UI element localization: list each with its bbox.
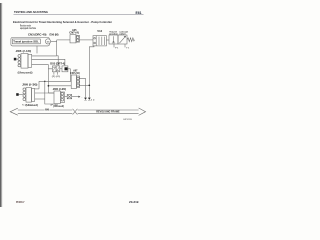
ground foot right	[88, 98, 91, 100]
valve left symbol	[113, 36, 115, 41]
J06 (/-10) pins	[18, 55, 21, 58]
svg-text:(P 35): (P 35)	[51, 104, 59, 106]
wire circle to tee	[51, 40, 57, 42]
wire via x44.8 to J08 bottom	[45, 81, 54, 104]
valve right symbol diagonal	[119, 36, 125, 43]
diode box D03 cell C	[62, 66, 68, 72]
svg-text:valve: valve	[119, 34, 127, 36]
header rule	[14, 14, 144, 16]
svg-text:J08 (/-20): J08 (/-20)	[53, 87, 67, 91]
connector J06 (/-10) body	[21, 54, 28, 69]
book spine shadow left edge	[0, 3, 3, 207]
wire X box right	[72, 96, 79, 98]
bus down from D03 left	[47, 69, 49, 93]
J06 (/-30) black square terminal	[16, 93, 19, 96]
revolving frame arrow body	[10, 108, 145, 115]
svg-text:BJP01159: BJP01159	[123, 119, 132, 121]
valve left cell	[109, 35, 118, 44]
svg-text:CN3 (DRC-40): CN3 (DRC-40)	[28, 32, 47, 36]
branch to A07 left	[48, 85, 71, 87]
valve right cell	[118, 35, 127, 44]
wire A07 pin3 to bus	[80, 84, 90, 86]
D03 bottom stubs	[53, 72, 55, 75]
travel junction SOL inner label box	[12, 39, 40, 44]
junction dot at bus/A07	[48, 85, 50, 87]
connector J08 (/-20) body	[54, 91, 60, 104]
wire V12 down to frame	[89, 46, 94, 98]
svg-text:J06 (/-30): J06 (/-30)	[22, 83, 38, 87]
small texts	[13, 25, 130, 109]
junction dot cross wire	[44, 81, 45, 82]
svg-text:V12: V12	[97, 29, 102, 33]
svg-text:E06 (M): E06 (M)	[50, 32, 59, 36]
J06 wire 1	[32, 55, 57, 57]
connector A25 body	[70, 35, 76, 43]
wire tee down	[56, 40, 58, 56]
connector J06 (/-30) body	[26, 88, 32, 103]
J06 wire 3	[32, 65, 53, 69]
valve spring	[127, 38, 135, 42]
wire end arrow after X box	[78, 96, 80, 98]
junction dot on long vertical	[88, 84, 90, 86]
J06 (/-10) left stub	[16, 58, 18, 60]
wire A25 to V12	[80, 39, 94, 41]
wire jog into D03 top	[57, 56, 59, 66]
wire A07 pin1 to frame	[80, 78, 86, 97]
wire J06-30 mid to J08	[35, 92, 54, 94]
svg-text:REVOLVING FRAME: REVOLVING FRAME	[96, 110, 120, 114]
svg-text:Electrical Circuit for Travel: Electrical Circuit for Travel Interlocki…	[13, 20, 113, 24]
break symbol on arrow	[72, 110, 77, 114]
long cross wire	[39, 80, 71, 82]
wire SOL box bottom to J06 top	[36, 46, 38, 54]
svg-text:junction: junction	[108, 33, 118, 36]
travel junction SOL box outer	[11, 38, 50, 46]
svg-text:(1) (2): (1) (2)	[52, 76, 60, 78]
svg-text:CN7-(4): CN7-(4)	[69, 32, 79, 35]
svg-text:20-319: 20-319	[129, 200, 139, 204]
wire B to C	[60, 68, 62, 70]
svg-text:To sw. joint: To sw. joint	[22, 103, 33, 106]
diode box D03 cell A	[52, 66, 56, 72]
connector circle CN3	[45, 39, 50, 44]
ground foot left	[84, 98, 87, 100]
X box	[67, 95, 72, 99]
branch into J08	[48, 92, 54, 94]
svg-text:J06 (/-10): J06 (/-10)	[16, 49, 32, 53]
svg-text:D03 (DRT-4): D03 (DRT-4)	[50, 61, 65, 65]
wire V12 to valve	[106, 39, 109, 41]
relay V12 body	[93, 36, 106, 46]
J06 (/-10) black square terminal	[14, 58, 16, 61]
svg-text:PC200-7: PC200-7	[16, 200, 25, 204]
connector A07 body	[71, 75, 76, 89]
right arrowhead	[139, 108, 146, 115]
diode box D03 cell B	[56, 66, 60, 72]
valve port stubs	[113, 44, 115, 47]
J06 wire 2	[32, 59, 65, 66]
wire tee right to A25	[57, 39, 70, 41]
svg-text:equipped machine: equipped machine	[20, 27, 37, 30]
wire J08 to X box	[65, 96, 68, 98]
page background	[0, 0, 150, 212]
svg-text:CN7-(10): CN7-(10)	[70, 72, 79, 75]
svg-text:(Unused): (Unused)	[18, 72, 33, 75]
wire C right then down to A07	[68, 69, 70, 82]
wire tag on arrow	[45, 108, 50, 111]
svg-text:TESTING AND ADJUSTING: TESTING AND ADJUSTING	[14, 10, 49, 14]
left arrowhead	[10, 108, 18, 115]
svg-text:Travel junction SOL: Travel junction SOL	[13, 41, 39, 44]
